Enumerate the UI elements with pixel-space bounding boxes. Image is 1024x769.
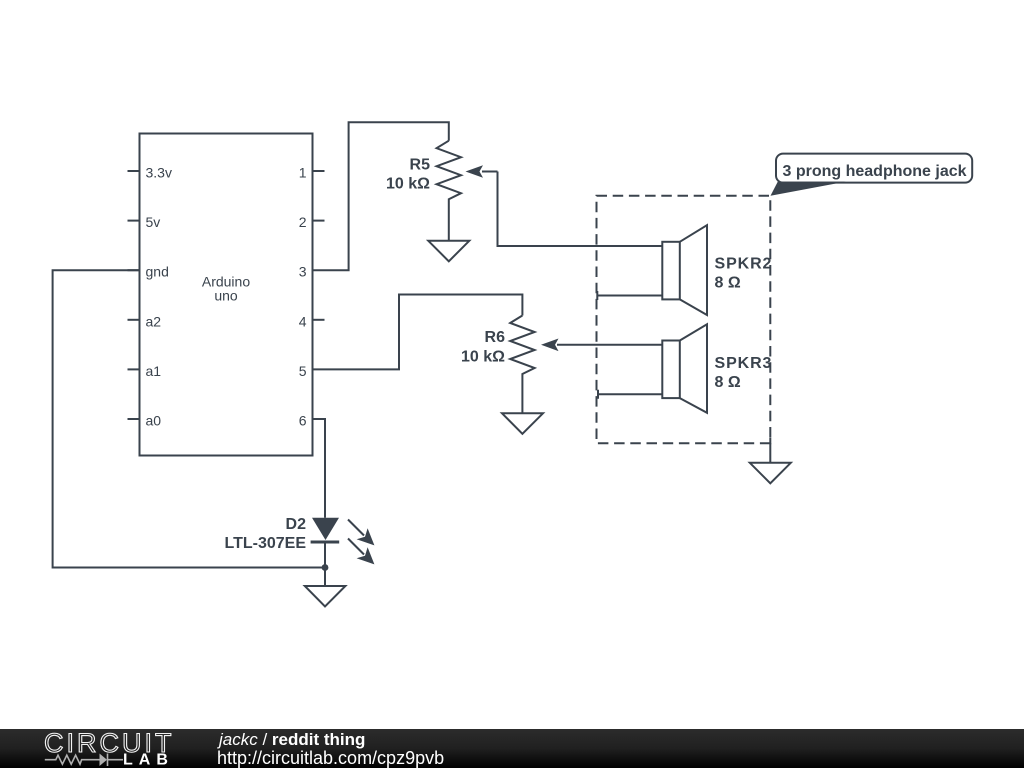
svg-text:3 prong headphone jack: 3 prong headphone jack [783,163,967,180]
callout box 3 prong headphone jack [771,154,973,196]
SPKR2 bottom terminal stub [597,291,662,300]
potentiometer R5 wiper arrow [466,165,498,178]
wire pin 3 to R5 top [313,122,449,270]
LED D2 light arrow 2 [348,539,374,565]
pin 5v [128,220,140,222]
svg-text:SPKR2: SPKR2 [715,256,773,273]
svg-text:SPKR3: SPKR3 [715,355,773,372]
label pin a0 [146,413,162,429]
pin 2 [313,220,325,222]
label pin 5v [146,214,161,230]
pin gnd [128,269,140,271]
svg-text:LAB: LAB [123,752,174,769]
svg-text:6: 6 [299,413,307,429]
svg-text:5: 5 [299,363,307,379]
label pin 1 [299,165,307,181]
headphone jack dashed boundary [597,196,771,443]
svg-text:a1: a1 [146,363,162,379]
svg-text:R6: R6 [485,329,506,346]
label pin 3.3v [146,165,172,181]
pin 3.3v [128,170,140,172]
svg-text:uno: uno [214,288,238,304]
CircuitLab logo [0,729,200,768]
wire pin 5 to R6 top [313,295,523,370]
ground below headphone jack [750,438,791,484]
potentiometer R6 zigzag [510,316,534,414]
svg-text:10 kΩ: 10 kΩ [461,348,505,365]
ground below D2 [305,568,346,607]
footer bar [0,729,1024,768]
url [217,748,444,769]
pin 4 [313,319,325,321]
SPKR3 bottom terminal stub [598,390,662,399]
svg-text:gnd: gnd [146,264,169,280]
LED D2 [311,518,340,568]
svg-text:8 Ω: 8 Ω [715,374,741,391]
speaker SPKR3 [662,324,707,413]
svg-text:8 Ω: 8 Ω [715,275,741,292]
wire pin 6 to LED D2 [313,419,326,518]
label pin 4 [299,313,307,329]
potentiometer R5 zigzag [437,141,461,241]
label SPKR2 value [715,256,773,292]
junction dot [322,564,329,571]
LED D2 light arrow 1 [348,520,374,546]
pin a0 [128,418,140,420]
svg-text:a2: a2 [146,313,162,329]
label R5 value [386,156,430,192]
svg-text:1: 1 [299,165,307,181]
title jackc / reddit thing [219,730,365,750]
pin a2 [128,319,140,321]
IC U1 Arduino uno body [140,134,313,456]
svg-text:R5: R5 [410,156,431,173]
ground below R6 [502,413,543,434]
label pin 3 [299,264,307,280]
wire gnd pin to D2 junction [53,270,325,567]
svg-text:4: 4 [299,313,307,329]
svg-text:10 kΩ: 10 kΩ [386,175,430,192]
label pin 6 [299,413,307,429]
svg-text:2: 2 [299,214,307,230]
label pin 5 [299,363,307,379]
label pin a2 [146,313,162,329]
pin a1 [128,368,140,370]
potentiometer R6 wiper arrow [541,339,662,352]
ground below R5 [428,241,469,261]
svg-text:a0: a0 [146,413,162,429]
pin 1 [313,170,325,172]
wire R5 wiper to SPKR2 top terminal [498,172,663,247]
label pin gnd [146,264,169,280]
svg-text:LTL-307EE: LTL-307EE [225,535,307,552]
label D2 value [225,516,307,552]
svg-text:3: 3 [299,264,307,280]
svg-text:5v: 5v [146,214,161,230]
svg-text:D2: D2 [286,516,307,533]
speaker SPKR2 [662,225,707,315]
label pin 2 [299,214,307,230]
label R6 value [461,329,505,365]
label SPKR3 value [715,355,773,391]
label callout text [783,163,967,180]
label pin a1 [146,363,162,379]
label Arduino uno [202,274,250,304]
svg-text:3.3v: 3.3v [146,165,172,181]
